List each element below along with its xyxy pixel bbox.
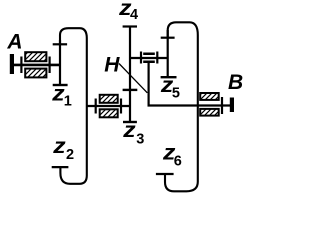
svg-text:A: A [6,31,22,54]
svg-text:3: 3 [136,131,144,147]
svg-text:5: 5 [172,86,180,102]
svg-text:4: 4 [130,7,138,23]
svg-text:z: z [52,135,66,158]
svg-text:6: 6 [174,154,182,170]
svg-text:H: H [104,54,120,77]
svg-text:B: B [228,71,243,94]
svg-text:1: 1 [64,93,72,109]
svg-text:2: 2 [66,147,74,163]
svg-text:z: z [122,119,136,142]
